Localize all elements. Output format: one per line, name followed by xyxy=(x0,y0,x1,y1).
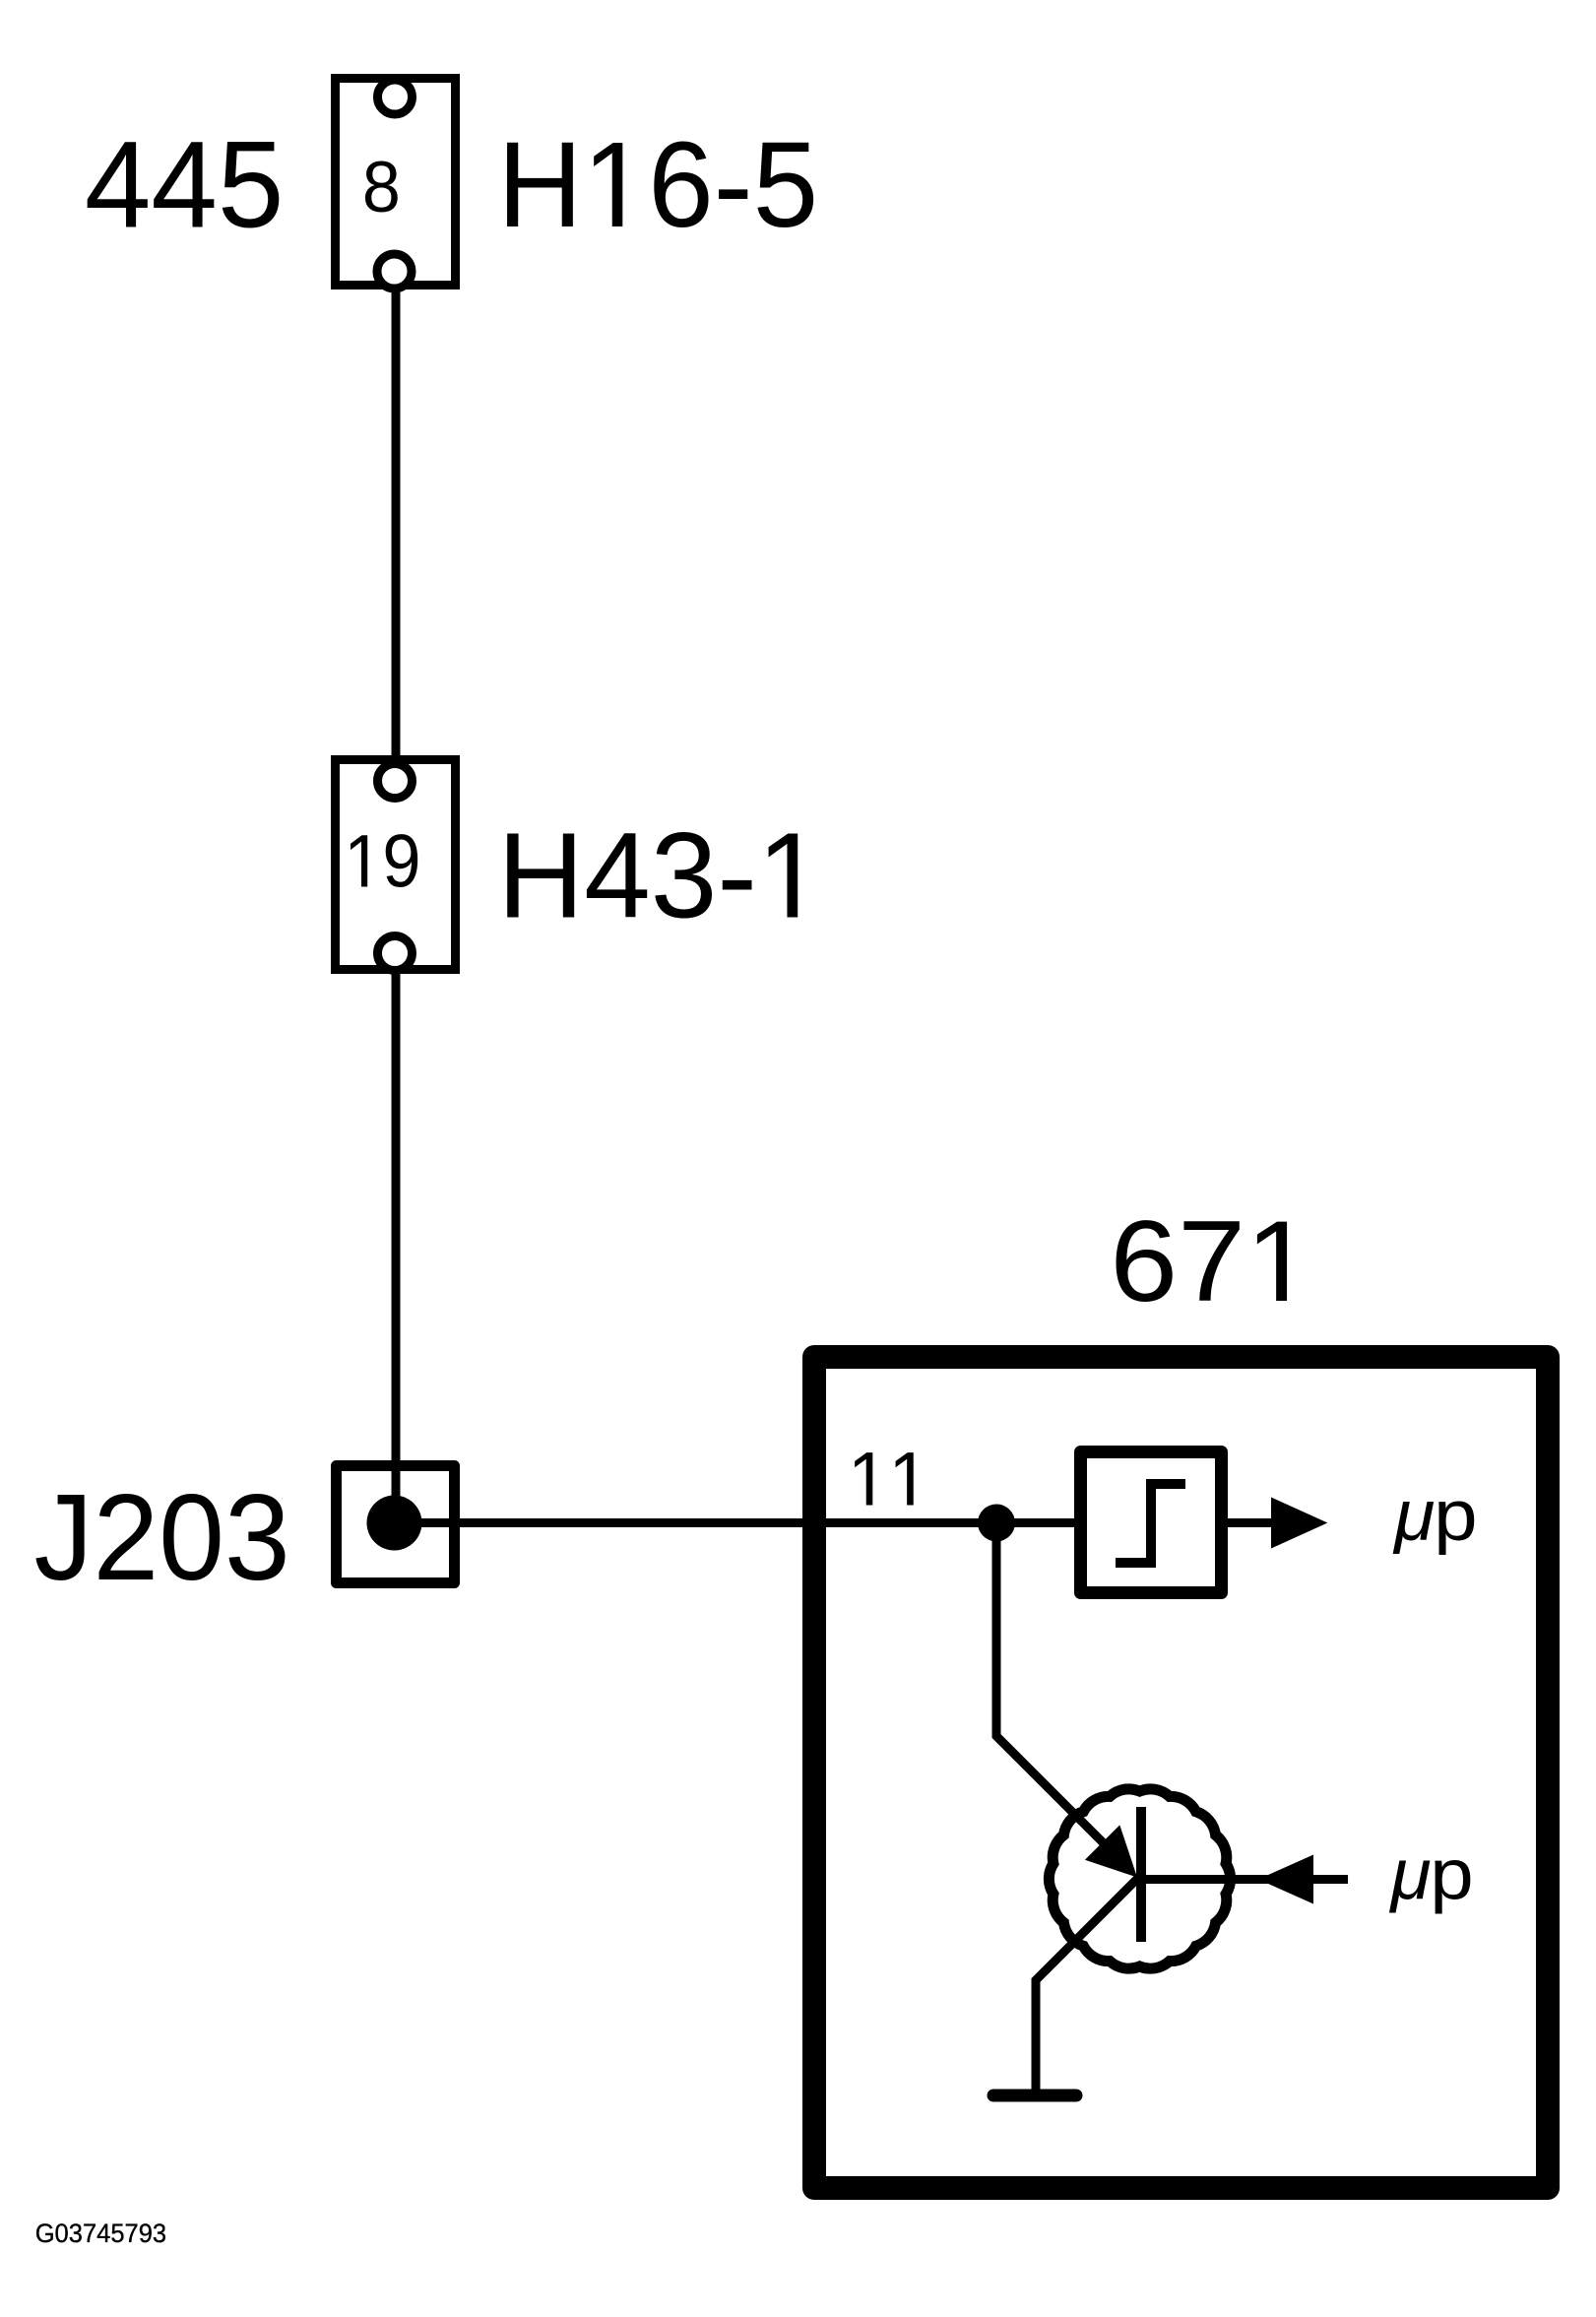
svg-text:J203: J203 xyxy=(34,1468,290,1606)
schmitt trigger block xyxy=(1081,1452,1222,1593)
connector H43-1 (pin 19) xyxy=(336,760,456,971)
svg-text:8: 8 xyxy=(362,147,401,227)
wire: connector H16-5 pin 8 to connector H43-1 pin 19 xyxy=(392,271,401,781)
label H16-5 xyxy=(497,116,818,252)
wire: junction to schmitt trigger input xyxy=(996,1518,1080,1527)
svg-text:G03745793: G03745793 xyxy=(35,2219,166,2249)
pin number 11 xyxy=(848,1437,930,1522)
arrowhead: base lead into transistor xyxy=(1085,1825,1137,1877)
svg-text:μ: μ xyxy=(1392,1475,1435,1556)
transistor base bar xyxy=(1136,1807,1146,1942)
svg-text:p: p xyxy=(1430,1835,1473,1915)
splice dot J203 xyxy=(367,1496,422,1551)
splice J203 box xyxy=(337,1466,455,1583)
label 671 xyxy=(1110,1196,1314,1325)
wire: connector H43-1 pin 19 to splice J203 xyxy=(392,953,401,1522)
wire: transistor to microprocessor (horizontal) xyxy=(1141,1875,1348,1884)
ground symbol xyxy=(993,2090,1076,2102)
label H43-1 xyxy=(497,807,825,943)
arrowhead: schmitt output to microprocessor xyxy=(1271,1498,1327,1549)
svg-text:p: p xyxy=(1434,1476,1477,1556)
connector 445 / H16-5 (pin 8) xyxy=(336,79,456,290)
wire: schmitt trigger output xyxy=(1228,1518,1277,1527)
label microprocessor (upper) xyxy=(1392,1475,1477,1556)
transistor (Hall sender) scalloped circle xyxy=(1049,1789,1230,1968)
arrowhead: microprocessor into transistor xyxy=(1258,1855,1313,1904)
wire: transistor emitter to ground xyxy=(1036,1877,1139,2094)
pin number 19 xyxy=(344,819,420,903)
svg-text:H16-5: H16-5 xyxy=(497,116,818,252)
control module 671 box xyxy=(814,1357,1548,2188)
svg-text:445: 445 xyxy=(85,116,285,254)
label microprocessor (lower) xyxy=(1388,1834,1473,1914)
wire: splice J203 to module 671 pin 11 xyxy=(392,1465,401,1522)
svg-text:μ: μ xyxy=(1388,1834,1431,1914)
junction node inside 671 xyxy=(978,1505,1015,1542)
wire: junction down to transistor base lead xyxy=(996,1523,1108,1848)
